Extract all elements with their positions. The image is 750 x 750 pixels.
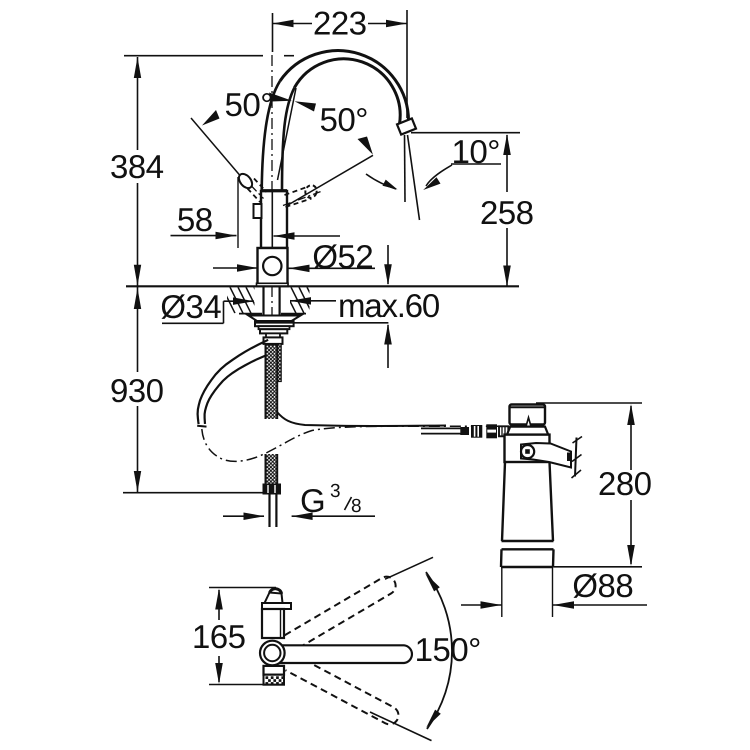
head flange [507,427,548,435]
dim line 258 upper [506,135,508,192]
counter underside left [239,313,262,315]
swivel ray upper [385,557,433,579]
dim line 258 lower [506,228,508,286]
O88 ext right [552,568,554,617]
front checker block [264,675,285,685]
hose end cap [197,425,206,428]
pipe left [268,494,270,527]
arrow O52 left [237,264,258,272]
braid band [266,345,278,484]
dim line 280 lower [630,500,632,564]
tick top 280 [536,402,642,404]
dim line 165 upper [218,590,220,620]
hose axis dash-dot curve [202,426,516,461]
label 930 [112,379,163,402]
faucet centerline [271,55,273,350]
mounting cone washer [249,316,301,322]
dim line 384 upper [137,57,139,150]
body inner line [271,191,273,248]
arrow O88 left [481,601,502,609]
lever1 axis [251,186,264,199]
arrow 280 bottom [627,545,635,566]
head body [505,435,550,462]
10deg spout axis line [408,135,420,220]
O34 right line [290,300,336,302]
swivel arrow bottom [426,710,441,728]
dim line 58 [171,235,237,237]
G38 arrow right [292,513,313,521]
ray B near-vertical [278,88,297,180]
deck line [126,285,519,287]
label O88 [574,573,633,598]
arrow 165 top [215,589,223,610]
wall line [575,438,577,477]
counter underside right [281,313,306,315]
label 58 [178,208,212,231]
max60 top arrow [384,264,392,285]
bracket arm wedge [521,443,571,468]
O34 leader [224,300,255,302]
tick bottom 930 [123,492,267,494]
body base plate [257,283,289,286]
10deg underline [451,163,501,165]
O88 line left [461,604,502,606]
tick top 384 [124,55,263,57]
vertical ref line under tip [404,135,407,202]
max60 tick [256,322,388,324]
hatch right [283,287,296,313]
hatch left [246,287,259,313]
dim line 223 right seg [368,23,407,25]
wall tick 1 [573,437,583,444]
label 150deg [417,638,479,661]
ext line left 223 [272,13,274,52]
dim line 930 lower [137,406,139,492]
spout capsule [278,645,412,663]
O88 ext left [501,568,503,617]
connector piece 4 [499,426,508,436]
second hose sliver behind braid [277,344,281,382]
swivel arc [426,572,452,729]
hose upper run [277,412,446,426]
hatch left [238,287,251,313]
label 50deg-1 [226,93,272,116]
arrow 930 bottom [134,471,141,492]
dim line 930 upper [137,287,139,372]
dim line 165 lower [218,656,220,682]
label 258 [482,201,533,224]
front lower block [264,666,285,675]
dashed spout position upper [285,573,399,650]
handle volume circle O52 [263,257,281,275]
lever2 upper edge [285,187,309,196]
spout outer arc [280,51,409,122]
arrow 258 top [503,134,511,155]
hatch left [254,287,267,313]
front lever body [265,593,283,604]
ext line lever end [237,177,239,248]
filter body sides [502,462,553,541]
label O52 [314,244,373,269]
riser right edge [282,88,295,192]
lever1 lower edge [248,189,261,203]
arrow 384 top [134,57,141,78]
dim line 280 upper [630,406,632,470]
arrow O52 right [289,265,310,273]
tick bottom 165 [209,684,276,686]
arrow 280 top [627,404,635,425]
label 223 [315,12,366,35]
hatch right [291,287,304,313]
cup sides [501,549,554,567]
bowtie arrows on ray B [269,93,292,102]
shank left [262,287,264,317]
braid left [265,345,267,484]
cap [510,405,546,425]
10deg arrow [423,177,440,190]
G38 line right [292,515,375,517]
arrow 930 top [134,288,141,309]
G38 fitting [263,484,281,494]
pipe lower [421,433,461,435]
arrow 223 left [273,20,294,28]
ray A 50deg-1 [191,118,243,179]
hatch right [307,287,320,313]
hatch left [230,287,243,313]
front body inner [280,609,282,638]
lever2 lower edge [286,199,312,208]
label 10deg [454,140,498,163]
50deg-2 arc arrow [383,180,398,190]
dim line 58 tail [274,235,341,237]
wall tick 2 [572,455,582,462]
lever1 upper edge [254,179,267,193]
swivel arrow top [425,573,440,591]
label 50deg-2 [321,108,367,131]
G38 arrow left [244,513,265,521]
front lever knob cap [270,589,282,594]
arrow 58 right [216,232,237,240]
shank right [279,287,281,317]
washer2 [259,326,290,329]
riser left edge [262,81,280,191]
mousseur spout tip [397,118,416,134]
front collar [262,603,291,609]
swivel ray lower [370,712,432,741]
label 280 [600,472,651,495]
body ring section [258,248,288,284]
pipe upper [421,427,461,429]
label 384 [111,155,163,178]
nut detail [266,333,280,337]
label 165 [195,625,245,648]
tick top 165 [209,587,276,589]
O34 jog [223,301,225,323]
label O34 [162,294,221,319]
pipe right [275,494,277,527]
label max60 [340,294,439,317]
body top bold edge [261,189,287,192]
mounting nut [260,329,287,333]
fraction slash [345,497,352,510]
hatch right [299,287,312,313]
lever2 axis [283,192,321,206]
max60 top line [387,245,389,284]
dashed spout position lower [285,654,401,727]
arrow 258 bottom [503,266,511,287]
50deg-2 arc [366,174,396,189]
hose inner edge [205,352,274,424]
arrow 223 right [386,20,407,27]
dim line O52 left [213,267,258,269]
hose adapter block [264,337,283,344]
tick top 258 [411,132,520,134]
10deg leader curve [426,165,452,186]
dim line 384 lower [137,183,139,286]
ray 50deg-2 [288,155,373,205]
hub [254,204,262,218]
hatch left [222,287,235,313]
braid right [276,345,278,484]
washer1 [255,321,294,326]
filter bottom [501,566,553,568]
arrow 58 left-tip [274,232,295,240]
body upper [261,191,287,248]
wall tick 3 [572,470,582,478]
O34 underline [162,322,224,324]
tick bottom 280 [553,566,642,568]
arrow 165 bottom [215,663,223,684]
arrow 384 bottom [134,265,141,286]
spout inner arc [295,59,401,124]
arrow O34 left [233,297,254,305]
front pivot circles [260,641,285,666]
max60 bottom line [387,325,389,368]
ext line right 223 to spout tip [406,10,408,118]
hose outer edge [198,340,269,424]
label G 3/8 [302,489,324,512]
arrow O88 right [553,601,574,609]
arrow O34 right [290,297,311,305]
O88 line right [553,604,647,606]
ring bottom [502,548,554,550]
front body [262,609,284,638]
max60 bottom arrow [384,324,392,345]
G38 line left [223,515,264,517]
cap top double line [510,406,545,408]
ring top [502,540,554,542]
dim line O52 right [289,267,376,269]
dim line 223 left seg [273,23,313,25]
